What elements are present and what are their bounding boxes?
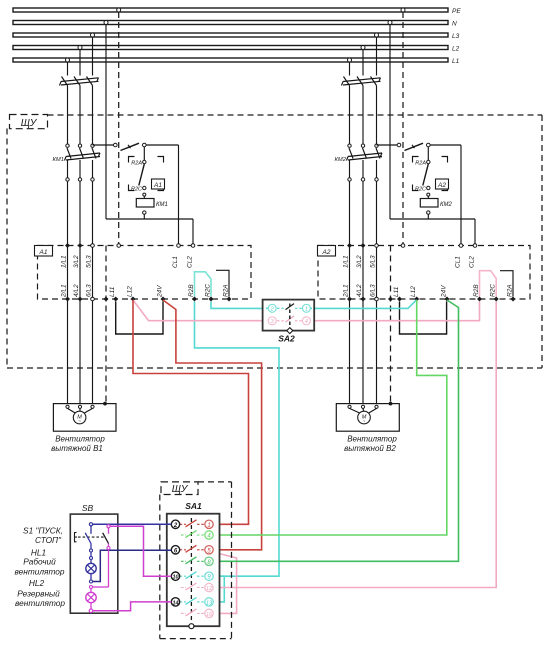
svg-text:КМ2: КМ2 (440, 202, 453, 208)
wire KM2 pole1 to motor2 (349, 181, 351, 404)
svg-text:Рабочий: Рабочий (23, 557, 56, 567)
wire CL1 right (460, 145, 462, 246)
svg-text:КМ1: КМ1 (53, 157, 64, 163)
terminal labels bottom row left (61, 284, 230, 298)
wire QF1 pole1 to KM1 (67, 86, 69, 145)
terminal labels top row right (343, 255, 476, 268)
switch S1 PUSK/STOP (75, 533, 109, 544)
svg-text:3/L2: 3/L2 (73, 255, 80, 268)
wire pink SA2 to R2B-right (310, 302, 480, 321)
contactor KM2 (335, 144, 382, 181)
motor M2 (336, 402, 399, 432)
svg-text:L12: L12 (127, 286, 134, 297)
contactor KM1 (53, 144, 100, 181)
SA1 terminal 10 (171, 572, 179, 581)
wire hook R2A left (216, 270, 229, 296)
terminal marks top edge right (347, 243, 477, 248)
SA1 contact row 8 (green) (181, 557, 205, 564)
svg-text:4/L2: 4/L2 (73, 284, 80, 297)
node SB top terminal (89, 523, 92, 526)
svg-text:1: 1 (305, 307, 308, 313)
svg-text:1: 1 (207, 523, 210, 529)
svg-text:SA2: SA2 (278, 334, 295, 344)
wire green 24V-right to SA1 term 8 (213, 300, 458, 561)
wire coil return to N left (106, 218, 193, 220)
coil KM2 (420, 196, 452, 219)
svg-text:4: 4 (305, 319, 308, 325)
svg-text:5/L3: 5/L3 (370, 255, 377, 268)
svg-text:2: 2 (173, 523, 178, 529)
wire L2 drop to QF2 (362, 50, 364, 76)
divider / PE dashed right (390, 246, 392, 405)
SA1 terminal 4 (205, 531, 213, 540)
wire cyan R2C-left to SA2 (211, 302, 269, 309)
svg-text:PE: PE (452, 8, 461, 15)
SA1 contact row 14-13 (cyan) (180, 597, 205, 604)
node tap N left (104, 21, 108, 25)
wire magenta S1 right pole (93, 528, 111, 587)
node contact right terminal left (143, 143, 147, 147)
svg-text:А1: А1 (39, 249, 48, 256)
svg-text:16: 16 (206, 612, 213, 618)
wire jumper L11-24V left (black U) (116, 302, 163, 335)
svg-text:вентилятор: вентилятор (14, 567, 64, 577)
svg-text:4/L2: 4/L2 (356, 284, 363, 297)
wire jumper R2B-R2C left (cyan) (195, 272, 212, 297)
wire PE drop right (dashed) (402, 12, 404, 246)
wire CL2 left (192, 219, 194, 246)
svg-text:R2C: R2C (415, 187, 426, 193)
wire L1 drop to QF2 (349, 62, 351, 76)
svg-text:А1: А1 (153, 182, 162, 189)
svg-text:L2: L2 (452, 46, 460, 53)
wire magenta HL2 to SA1 term 14 (93, 602, 172, 611)
svg-text:L11: L11 (393, 286, 400, 297)
svg-text:SA1: SA1 (185, 501, 202, 511)
wire blue SB to SA1 term 2 (93, 523, 172, 525)
wire cyan R2B-left to SA1 term 9 (195, 302, 280, 577)
bus L3 (13, 33, 460, 40)
wire KM1 pole2 to motor1 (79, 181, 81, 404)
svg-text:R2A: R2A (131, 161, 142, 167)
svg-text:CL2: CL2 (187, 256, 194, 268)
svg-text:~: ~ (78, 419, 81, 424)
node junction right feed (397, 143, 401, 147)
lamp HL1 (86, 563, 96, 573)
terminal marks bottom edge left (65, 297, 232, 302)
wire pink SA1 term5 to term16 (213, 553, 236, 614)
svg-text:3/L2: 3/L2 (356, 255, 363, 268)
bus L1 (13, 58, 460, 65)
svg-text:ЩУ: ЩУ (172, 484, 189, 495)
wire blue pole S1 left (90, 526, 93, 563)
label box A2 terminal strip (318, 246, 336, 257)
svg-text:6/L3: 6/L3 (86, 284, 93, 297)
svg-text:6/L3: 6/L3 (370, 284, 377, 297)
divider / PE dashed left (105, 246, 107, 405)
wire KM1 pole3 to motor1 (92, 181, 94, 404)
label box A1 (device) (152, 179, 165, 189)
SA1 terminal 1 (205, 520, 213, 529)
contact R2A-R2C thermal relay right (413, 147, 448, 196)
wire pink L12-left to SA2 (133, 300, 269, 321)
svg-text:CL2: CL2 (469, 256, 476, 268)
node tap PE right (401, 8, 405, 12)
SA1 terminal 9 (205, 572, 213, 581)
label box A1 terminal strip (35, 246, 53, 257)
wire pink R2C-right to SA1 term 12 (213, 302, 496, 588)
svg-text:вентилятор: вентилятор (15, 598, 65, 608)
svg-text:R2C: R2C (131, 187, 142, 193)
contact aux KM2 (feed switch) (405, 143, 424, 150)
breaker QF2 (342, 77, 381, 86)
svg-text:2: 2 (270, 307, 274, 313)
svg-text:HL2: HL2 (29, 578, 45, 588)
button box SB (70, 503, 118, 613)
switch SA1 (167, 501, 220, 629)
switch SA2 (263, 300, 315, 344)
svg-text:L11: L11 (109, 286, 116, 297)
SA1 terminal 16 (205, 609, 213, 618)
wire HL1 to HL2 node (90, 574, 93, 593)
svg-text:14: 14 (172, 600, 178, 606)
wire CL1 left (178, 145, 180, 246)
wire N drop left (105, 25, 107, 220)
svg-text:2/L1: 2/L1 (343, 284, 350, 298)
svg-text:12: 12 (206, 586, 212, 592)
svg-text:L3: L3 (452, 33, 460, 40)
node tap L3 left (91, 33, 95, 37)
bus PE (13, 8, 461, 15)
SA1 terminal 2 (171, 520, 179, 529)
svg-text:1/L1: 1/L1 (343, 255, 350, 268)
SA1 contact row 12 (pink) (181, 583, 205, 590)
node magenta S1 right pole top (107, 525, 110, 528)
label HL2 (15, 578, 65, 608)
svg-text:CL1: CL1 (455, 256, 462, 268)
svg-text:вытяжной В2: вытяжной В2 (344, 444, 396, 453)
wire QF2 pole1 to KM2 (349, 86, 351, 145)
svg-text:А2: А2 (437, 182, 446, 189)
cabinet box ShchU bottom (dashed) (160, 482, 232, 639)
SA1 terminal 6 (171, 546, 179, 555)
SA1 terminal 8 (205, 557, 213, 566)
wire KM1 pole1 to motor1 (67, 181, 69, 404)
SA1 terminal 12 (205, 583, 213, 592)
svg-text:Вентилятор: Вентилятор (55, 435, 105, 444)
label motor M1 (51, 435, 105, 454)
node junction left feed (114, 143, 118, 147)
wire coil return to N right (390, 218, 475, 220)
wire KM2 pole3 to motor2 (376, 181, 378, 404)
wire L3 drop to QF1 (92, 37, 94, 76)
cabinet box ShchU (dashed) (7, 115, 542, 368)
wire QF1 pole2 to KM1 (79, 86, 81, 145)
terminal labels top row left (61, 255, 194, 268)
label motor M2 (344, 435, 397, 454)
terminal strip box right (dashed) (318, 246, 530, 300)
svg-text:ЩУ: ЩУ (21, 118, 38, 129)
wire QF1 pole3 to KM1 (92, 86, 94, 145)
motor M1 (53, 402, 116, 432)
wire KM2 pole2 to motor2 (362, 181, 364, 404)
breaker QF1 (60, 77, 99, 86)
svg-text:S1 "ПУСК,: S1 "ПУСК, (23, 526, 63, 536)
wire PE drop left (dashed) (118, 12, 120, 246)
wire navy HL1 bottom to SA1 term 6 (93, 550, 172, 581)
wire L3 drop to QF2 (376, 37, 378, 76)
wire red L12-left to SA1 term 1 (133, 300, 249, 524)
wire QF2 pole2 to KM2 (362, 86, 364, 145)
svg-text:СТОП": СТОП" (35, 535, 62, 545)
contact aux KM1 (feed switch) (121, 143, 140, 150)
SA1 contact row 4 (green) (181, 531, 205, 538)
wire QF2 pole3 to KM2 (376, 86, 378, 145)
svg-text:10: 10 (172, 575, 178, 581)
wire green L12-right to SA1 term 4 (213, 300, 446, 535)
wire jumper L11-24V right (black U) (400, 302, 447, 335)
bus L2 (13, 46, 460, 53)
wire CL2 right (474, 219, 476, 246)
bus N (13, 21, 457, 28)
svg-text:2/L1: 2/L1 (61, 284, 68, 298)
node tap PE left (117, 8, 121, 12)
svg-text:13: 13 (206, 600, 213, 606)
wire magenta S1 to SA1 term 10 (110, 526, 171, 576)
wire red 24V-left to SA1 term 5 (163, 300, 262, 550)
svg-text:~: ~ (363, 419, 366, 424)
terminal labels bottom row right (343, 284, 514, 298)
wire control feed right (377, 144, 462, 146)
svg-text:КМ2: КМ2 (335, 157, 347, 163)
node contact right terminal right (427, 143, 431, 147)
svg-text:5/L3: 5/L3 (86, 255, 93, 268)
svg-text:А2: А2 (322, 249, 331, 256)
node tap L1 left (66, 58, 70, 62)
svg-text:SB: SB (82, 503, 94, 513)
wire L2 drop to QF1 (79, 50, 81, 76)
wire cyan SA2 to L12-right (310, 300, 417, 309)
label S1 (23, 526, 63, 546)
terminal strip box left (dashed) (38, 246, 252, 300)
SA1 contact row 2-1 (red) (180, 520, 205, 527)
wire jumper R2B-R2C right (pink) (480, 271, 497, 297)
SA1 terminal 14 (171, 598, 179, 607)
label box A2 (device) (436, 179, 449, 189)
svg-text:R2A: R2A (415, 161, 426, 167)
node tap N right (388, 21, 392, 25)
contact R2A-R2C thermal relay left (129, 147, 164, 196)
svg-text:24V: 24V (441, 285, 448, 298)
svg-text:N: N (452, 21, 457, 28)
svg-text:24V: 24V (157, 285, 164, 298)
svg-text:Вентилятор: Вентилятор (347, 435, 397, 444)
lamp HL2 (86, 592, 96, 602)
wire HL2 bottom (89, 603, 93, 613)
node tap L3 right (375, 33, 379, 37)
terminal marks top edge left (65, 243, 195, 248)
SA1 terminal 13 (205, 598, 213, 607)
wire N drop right (389, 25, 391, 220)
SA1 contact row 16 (pink) (181, 609, 205, 616)
SA1 contact row 10-9 (cyan) (180, 572, 205, 579)
SA1 terminal 5 (205, 546, 213, 555)
svg-text:вытяжной В1: вытяжной В1 (51, 444, 103, 453)
svg-text:1/L1: 1/L1 (61, 255, 68, 268)
wire cyan jumper SA1 9-13 (213, 576, 224, 602)
node tap L1 right (348, 58, 352, 62)
svg-text:L12: L12 (410, 286, 417, 297)
node tap L2 right (361, 46, 365, 50)
wire hook R2A right (500, 271, 513, 297)
label box ShchU bottom (161, 482, 198, 495)
wire L1 drop to QF1 (67, 62, 69, 76)
SA1 contact row 6-5 (red) (180, 545, 205, 552)
label box ShchU top-left (10, 115, 48, 130)
svg-text:CL1: CL1 (172, 256, 179, 268)
node tap L2 left (78, 46, 82, 50)
svg-text:КМ1: КМ1 (156, 202, 168, 208)
label HL1 (14, 547, 64, 576)
svg-text:L1: L1 (452, 58, 460, 65)
wire control feed left (93, 144, 179, 146)
coil KM1 (136, 196, 168, 219)
terminal marks bottom edge right (347, 297, 516, 302)
